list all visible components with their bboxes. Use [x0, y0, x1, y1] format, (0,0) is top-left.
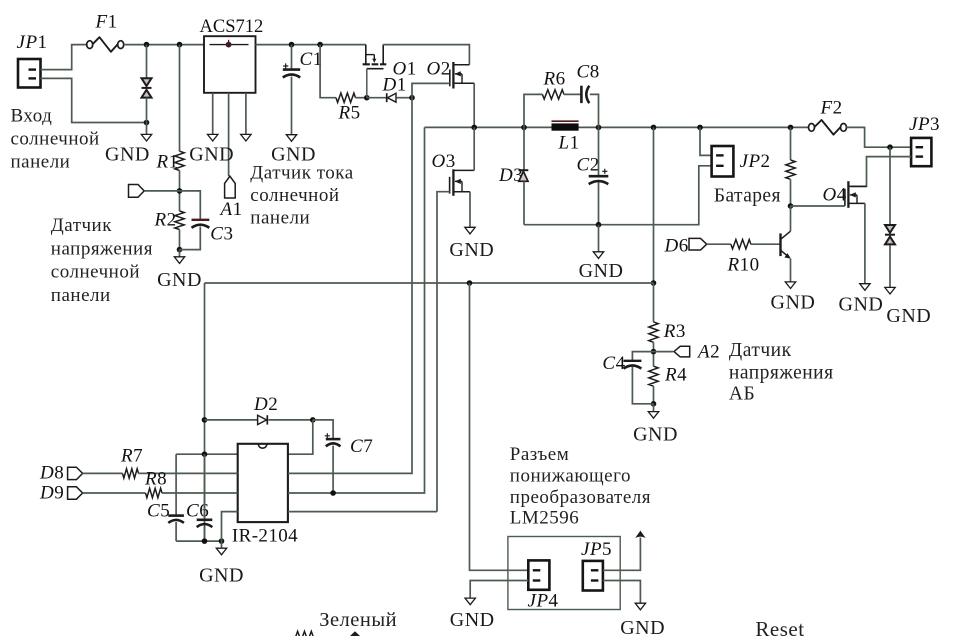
svg-text:GND: GND — [105, 144, 150, 166]
wire pin4 — [222, 512, 238, 541]
node junction R1 top — [177, 42, 183, 48]
ground ACS712 pin1 — [208, 134, 218, 141]
svg-text:F1: F1 — [95, 12, 118, 33]
GND label below R4 — [633, 423, 678, 445]
node junction O4 gate net — [788, 203, 794, 209]
wire O1 node to D1 — [367, 97, 387, 99]
capacitor C8 label — [577, 62, 600, 83]
capacitor C7 label — [350, 436, 373, 457]
wire supply bus — [205, 282, 654, 284]
wire ground rail D3-C2-JP2 — [524, 166, 712, 225]
arrow up JP5 — [635, 531, 645, 538]
node junction rail C6 — [202, 538, 208, 544]
svg-text:панели: панели — [11, 152, 71, 173]
TVS diode VD1 — [142, 78, 152, 97]
wire R9 to collector node — [790, 179, 792, 206]
wire F1 to ACS712 — [124, 44, 204, 46]
svg-text:панели: панели — [51, 285, 111, 306]
svg-text:GND: GND — [157, 269, 202, 291]
svg-text:C2: C2 — [577, 155, 600, 176]
wire R10 to base — [751, 243, 781, 245]
wire pin6 to node bus — [288, 127, 425, 493]
wire O3 gate lead — [437, 192, 450, 512]
svg-text:JP1: JP1 — [17, 32, 48, 53]
wire D3 branch top — [523, 127, 525, 170]
GND label below O4 — [839, 294, 884, 316]
resistor R2 label — [154, 210, 177, 231]
resistor R4 — [649, 366, 658, 386]
wire R2 bottom — [179, 230, 181, 250]
transistor O3 — [450, 169, 475, 196]
partial resistor bottom edge — [293, 631, 314, 636]
node junction O1 source — [364, 95, 370, 101]
svg-text:GND: GND — [449, 239, 494, 261]
resistor R1 label — [156, 152, 179, 173]
svg-text:R2: R2 — [154, 210, 177, 231]
node junction divider mid — [177, 188, 183, 194]
wire D3 to rail — [523, 182, 525, 225]
connector JP5 label — [581, 539, 612, 560]
svg-text:R4: R4 — [664, 365, 687, 386]
node junction pin1 VCC — [202, 451, 208, 457]
GND label below IR rail — [199, 565, 244, 587]
wire C8 to node — [590, 94, 599, 127]
ground below IR rail — [216, 548, 226, 555]
ground below JP4 — [465, 598, 475, 605]
svg-text:напряжения: напряжения — [51, 238, 153, 259]
svg-text:GND: GND — [271, 143, 316, 165]
capacitor C7 — [325, 433, 341, 446]
GND label below C1 — [271, 143, 316, 165]
transistor O2 — [450, 62, 474, 89]
label A2 — [696, 342, 720, 363]
wire R9 top — [790, 127, 792, 160]
wire R5 to D1 node — [356, 97, 367, 99]
GND label below TVS2 — [886, 305, 931, 327]
svg-text:R3: R3 — [663, 321, 686, 342]
wire TVS2 to ground — [889, 246, 891, 288]
wire D2 to pin8 — [288, 420, 313, 454]
svg-text:L1: L1 — [558, 133, 580, 154]
connector D9 flag — [68, 487, 83, 499]
resistor R2 — [175, 211, 184, 230]
wire gnd rail IR — [176, 540, 221, 542]
diode D2 — [258, 415, 268, 424]
diode D3 — [519, 170, 529, 181]
IC IR-2104 box — [238, 444, 288, 522]
IC ACS712 label — [200, 17, 264, 37]
partial symbol bottom edge — [350, 631, 360, 636]
connector JP2 — [712, 146, 734, 177]
svg-text:R6: R6 — [543, 69, 566, 90]
transistor O4 — [845, 181, 867, 208]
node junction rail GND tap — [596, 222, 602, 228]
svg-text:GND: GND — [579, 260, 624, 282]
wire C4 branch — [632, 352, 653, 404]
connector JP4 label — [528, 591, 559, 612]
ground below R4 — [648, 412, 658, 419]
GND label below C2 rail — [579, 260, 624, 282]
node junction R2 bottom — [177, 247, 183, 253]
svg-text:Батарея: Батарея — [714, 186, 781, 207]
wire R1 to R2 — [179, 171, 181, 212]
svg-text:C3: C3 — [210, 224, 233, 245]
svg-text:понижающего: понижающего — [510, 466, 631, 487]
node junction C7 pin6 — [330, 490, 336, 496]
svg-text:Зеленый: Зеленый — [319, 609, 397, 631]
GND label below JP5 — [620, 617, 665, 636]
capacitor C4 label — [602, 353, 625, 374]
svg-text:A1: A1 — [219, 199, 243, 220]
connector JP5 — [583, 561, 603, 591]
ground below TVS2 — [885, 287, 895, 294]
svg-text:GND: GND — [189, 143, 234, 165]
svg-text:D2: D2 — [253, 394, 278, 415]
svg-text:солнечной: солнечной — [11, 129, 100, 150]
svg-text:R10: R10 — [727, 255, 760, 276]
svg-text:O2: O2 — [427, 59, 451, 80]
svg-text:A2: A2 — [696, 342, 720, 363]
svg-text:Вход: Вход — [11, 106, 53, 127]
wire C3 branch — [180, 191, 201, 250]
ground below TVS — [141, 134, 151, 141]
IC IR-2104 label — [232, 526, 298, 547]
wire C5 branch — [175, 454, 177, 541]
wire O4 gate line — [791, 205, 845, 207]
svg-text:АБ: АБ — [729, 384, 755, 405]
svg-text:LM2596: LM2596 — [510, 508, 580, 529]
capacitor C3 label — [210, 224, 233, 245]
resistor R7 label — [120, 446, 143, 467]
connector flag to divider — [129, 185, 145, 198]
wire pin7 to O2 gate bus — [288, 98, 412, 474]
GND label below JP4 — [450, 609, 495, 631]
wire ACS712 pin2 lead to A1 — [228, 93, 230, 176]
svg-text:D6: D6 — [664, 236, 689, 257]
capacitor C2 — [589, 169, 609, 184]
wire R4 to ground — [653, 404, 655, 412]
label Вход солнечной панели — [11, 106, 100, 173]
wire flag to divider — [144, 190, 179, 192]
connector JP2 label — [740, 151, 771, 172]
svg-text:солнечной: солнечной — [250, 185, 339, 206]
ground ACS712 pin3 — [241, 134, 251, 141]
wire R6 to C8 — [564, 93, 581, 95]
node junction R3 net — [651, 125, 657, 131]
wire D9 to R8 — [83, 492, 146, 494]
wire ACS712 out — [256, 44, 366, 46]
wire R8 to pin3 — [162, 492, 238, 494]
ground below C2 rail — [593, 252, 603, 259]
fuse F2 label — [820, 98, 843, 119]
svg-text:D8: D8 — [39, 463, 64, 484]
GND label below TVS — [105, 144, 150, 166]
wire D1 to gate node — [397, 97, 412, 99]
wire O4 source to ground — [864, 203, 866, 283]
wire C7 branch — [313, 420, 333, 493]
transistor O4 label — [823, 185, 847, 206]
transistor O2 label — [427, 59, 451, 80]
wire TVS branch top — [146, 45, 148, 78]
wire C6 on vcc vertical — [204, 454, 206, 541]
svg-text:C7: C7 — [350, 436, 373, 457]
wire TVS branch bottom — [146, 98, 148, 135]
wire O2 source down — [473, 83, 475, 127]
wire R3 to R4 — [653, 342, 655, 366]
svg-text:преобразователя: преобразователя — [510, 487, 651, 508]
node junction D2 left — [202, 417, 208, 423]
wire O1 to O2 top — [383, 45, 469, 65]
svg-text:F2: F2 — [820, 98, 843, 119]
wire O3 drain up — [473, 127, 475, 170]
wire D2 cathode — [268, 419, 313, 421]
wire C1 branch — [291, 45, 293, 135]
wire D6 to R10 — [707, 243, 731, 245]
wire R7 to pin2 — [139, 472, 238, 474]
resistor R5 label — [338, 103, 361, 124]
wire JP1 pin2 to GND net — [41, 78, 147, 122]
svg-text:C1: C1 — [300, 49, 323, 70]
fuse F1 label — [95, 12, 118, 33]
diode D2 label — [253, 394, 278, 415]
svg-text:R8: R8 — [144, 469, 167, 490]
wire A2 stub — [654, 351, 674, 353]
resistor R7 — [123, 469, 139, 478]
connector A2 flag — [674, 346, 690, 357]
svg-text:C5: C5 — [147, 501, 170, 522]
resistor R3 — [649, 322, 658, 342]
svg-text:ACS712: ACS712 — [200, 17, 264, 37]
transistor O1 label — [393, 59, 417, 80]
node junction bus JP4 feed — [467, 280, 473, 286]
connector D6 flag — [689, 238, 707, 250]
resistor R10 — [731, 240, 751, 249]
resistor R6 label — [543, 69, 566, 90]
GND label below ACS712 — [189, 143, 234, 165]
svg-text:JP2: JP2 — [740, 151, 771, 172]
connector JP3 label — [909, 114, 940, 135]
wire R6 branch left — [524, 94, 542, 127]
resistor R9 — [786, 160, 795, 179]
node junction D2 right — [310, 417, 316, 423]
svg-text:O4: O4 — [823, 185, 847, 206]
node junction rail pin4 — [219, 538, 225, 544]
svg-text:GND: GND — [771, 291, 816, 313]
node junction JP2 net — [697, 125, 703, 131]
svg-text:GND: GND — [450, 609, 495, 631]
node junction bus R3 — [651, 280, 657, 286]
inductor L1 — [552, 121, 579, 131]
inductor L1 label — [558, 133, 580, 154]
ground below O4 — [860, 284, 870, 291]
diode D1 label — [382, 75, 407, 96]
transistor O3 label — [432, 151, 456, 172]
ground below O3 — [465, 227, 475, 234]
node junction R9 top — [788, 125, 794, 131]
resistor R5 — [336, 93, 356, 102]
wire ACS712 pin3 lead — [245, 93, 247, 135]
wire R3 top — [653, 283, 655, 322]
IC ACS712 box — [204, 36, 256, 93]
fuse F2 — [809, 120, 847, 135]
node junction C1 top — [289, 42, 295, 48]
svg-text:GND: GND — [633, 423, 678, 445]
transistor Q1 — [781, 231, 791, 258]
label Датчик напряжения АБ — [729, 340, 834, 405]
LM2596 module box — [508, 537, 620, 610]
wire R5 branch down — [320, 45, 336, 98]
resistor R8 — [146, 488, 163, 497]
svg-text:Разъем: Разъем — [510, 444, 569, 465]
svg-text:GND: GND — [199, 565, 244, 587]
svg-text:JP5: JP5 — [581, 539, 612, 560]
wire R2 to ground — [179, 250, 181, 257]
svg-text:JP3: JP3 — [909, 114, 940, 135]
wire D8 to R7 — [83, 472, 123, 474]
node junction D3 top — [521, 125, 527, 131]
svg-text:C8: C8 — [577, 62, 600, 83]
label A1 — [219, 199, 243, 220]
wire BJT collector — [790, 206, 792, 231]
diode D1 — [387, 93, 396, 102]
ground below JP5 — [635, 603, 645, 610]
connector JP3 — [911, 138, 931, 166]
wire battery sense vertical — [653, 127, 655, 283]
label Зеленый — [319, 609, 397, 631]
GND label below BJT — [771, 291, 816, 313]
svg-text:C6: C6 — [186, 501, 209, 522]
ground below C1 — [286, 135, 296, 142]
wire F2 to JP3 pin1 — [847, 127, 912, 147]
diode D3 label — [498, 165, 523, 186]
svg-text:GND: GND — [839, 294, 884, 316]
connector JP4 — [528, 560, 549, 589]
wire R4 bottom — [653, 386, 655, 404]
wire bus to JP4 feed — [470, 283, 528, 570]
wire O2 gate lead — [412, 83, 450, 97]
node junction TVS bottom — [144, 120, 150, 126]
svg-text:C4: C4 — [602, 353, 625, 374]
capacitor C5 label — [147, 501, 170, 522]
capacitor C8 — [581, 86, 589, 103]
node junction JP3 TVS — [887, 144, 893, 150]
svg-text:IR-2104: IR-2104 — [232, 526, 298, 547]
capacitor C1 — [283, 63, 300, 77]
svg-text:панели: панели — [250, 208, 310, 229]
svg-text:Датчик: Датчик — [51, 215, 112, 236]
label Датчик тока солнечной панели — [250, 163, 353, 229]
TVS diode VD2 — [885, 225, 895, 244]
wire ACS712 pin1 lead — [212, 93, 214, 135]
connector JP1 — [18, 59, 41, 88]
connector D9 label — [39, 483, 64, 504]
svg-text:Датчик: Датчик — [729, 340, 792, 361]
node junction D1 right — [409, 95, 415, 101]
svg-text:D3: D3 — [498, 165, 523, 186]
resistor R8 label — [144, 469, 167, 490]
wire JP5 pin1 up — [603, 538, 641, 571]
wire main node — [425, 126, 809, 128]
connector JP1 label — [17, 32, 48, 53]
node junction O2 source — [471, 125, 477, 131]
label Reset — [755, 617, 804, 636]
wire D2 anode — [205, 419, 258, 421]
label Датчик напряжения солнечной панели — [51, 215, 153, 306]
svg-text:D9: D9 — [39, 483, 64, 504]
wire R1 top — [179, 45, 181, 152]
capacitor C4 — [624, 361, 642, 369]
wire JP4 pin2 to gnd — [470, 581, 528, 599]
resistor R10 label — [727, 255, 760, 276]
connector D8 flag — [68, 467, 83, 479]
svg-text:напряжения: напряжения — [729, 363, 834, 384]
GND label below O3 — [449, 239, 494, 261]
svg-text:солнечной: солнечной — [51, 262, 140, 283]
resistor R6 — [542, 90, 564, 99]
wire VCC pin1 — [176, 453, 238, 455]
resistor R3 label — [663, 321, 686, 342]
svg-text:D1: D1 — [382, 75, 407, 96]
node junction R4 bottom — [651, 401, 657, 407]
svg-text:Датчик тока: Датчик тока — [250, 163, 353, 184]
label Батарея — [714, 186, 781, 207]
wire rail GND stub — [598, 225, 600, 252]
capacitor C1 label — [300, 49, 323, 70]
resistor R1 — [175, 151, 184, 170]
fuse F1 — [87, 37, 124, 52]
transistor O1 — [363, 45, 387, 98]
node junction C2 top — [596, 125, 602, 131]
svg-text:O3: O3 — [432, 151, 456, 172]
wire JP5 pin2 to gnd — [603, 581, 641, 604]
node junction R5 branch — [317, 42, 323, 48]
capacitor C6 — [197, 520, 213, 527]
svg-text:JP4: JP4 — [528, 591, 559, 612]
resistor R4 label — [664, 365, 687, 386]
wire JP1 pin1 to F1 — [41, 45, 87, 70]
ground below R2 — [174, 257, 184, 264]
svg-text:Reset: Reset — [755, 617, 804, 636]
GND label below R2 — [157, 269, 202, 291]
node junction AB divider — [651, 349, 657, 355]
svg-text:R5: R5 — [338, 103, 361, 124]
wire rail gnd stub — [221, 541, 223, 548]
wire JP2 pin1 — [700, 127, 712, 155]
capacitor C3 — [192, 220, 210, 228]
wire BJT emitter to ground — [790, 259, 792, 282]
svg-text:GND: GND — [620, 617, 665, 636]
wire O3 source to ground — [469, 192, 471, 228]
wire C2 branch — [598, 127, 600, 224]
wire bus left vertical — [204, 283, 206, 541]
connector D8 label — [39, 463, 64, 484]
wire pin5 line — [288, 511, 437, 513]
wire JP3 pin2 to O4 drain — [851, 157, 911, 187]
svg-text:R7: R7 — [120, 446, 143, 467]
capacitor C5 — [168, 516, 184, 523]
label Разъем понижающего преобразователя LM2596 — [510, 444, 651, 529]
capacitor C2 label — [577, 155, 600, 176]
svg-text:GND: GND — [886, 305, 931, 327]
ground below BJT — [785, 282, 795, 289]
capacitor C6 label — [186, 501, 209, 522]
wire TVS2 branch — [889, 147, 891, 224]
node junction F1-TVS — [144, 42, 150, 48]
connector A1 flag — [225, 176, 236, 198]
connector D6 label — [664, 236, 689, 257]
